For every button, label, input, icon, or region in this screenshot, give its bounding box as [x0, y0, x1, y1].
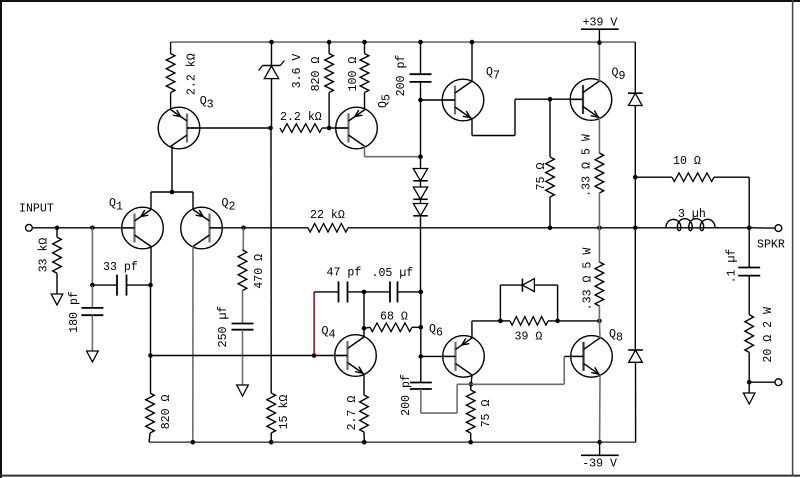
- svg-text:-39 V: -39 V: [582, 458, 617, 471]
- svg-text:75 Ω: 75 Ω: [480, 400, 493, 428]
- svg-text:20 Ω 2 W: 20 Ω 2 W: [762, 307, 775, 363]
- svg-text:3.6 V: 3.6 V: [291, 54, 304, 89]
- svg-text:820 Ω: 820 Ω: [310, 57, 323, 92]
- svg-text:SPKR: SPKR: [757, 239, 785, 252]
- svg-text:10 Ω: 10 Ω: [673, 155, 701, 168]
- svg-text:33 kΩ: 33 kΩ: [38, 238, 51, 273]
- svg-text:2.2 kΩ: 2.2 kΩ: [280, 111, 322, 124]
- svg-text:2.2 kΩ: 2.2 kΩ: [186, 53, 199, 95]
- svg-text:+39 V: +39 V: [583, 17, 618, 30]
- svg-text:.33 Ω 5 W: .33 Ω 5 W: [582, 248, 595, 311]
- svg-text:75 Ω: 75 Ω: [535, 163, 548, 191]
- svg-text:200 pf: 200 pf: [395, 55, 408, 97]
- svg-text:200 pf: 200 pf: [400, 374, 413, 416]
- svg-text:250 µf: 250 µf: [217, 306, 230, 348]
- svg-text:180 pf: 180 pf: [68, 291, 81, 333]
- svg-text:47 pf: 47 pf: [327, 267, 362, 280]
- svg-text:22 kΩ: 22 kΩ: [310, 209, 345, 222]
- svg-text:33 pf: 33 pf: [103, 261, 138, 274]
- svg-text:INPUT: INPUT: [19, 203, 54, 216]
- svg-text:100 Ω: 100 Ω: [347, 57, 360, 92]
- svg-text:68 Ω: 68 Ω: [380, 311, 408, 324]
- svg-text:15 kΩ: 15 kΩ: [278, 395, 291, 430]
- svg-text:820 Ω: 820 Ω: [160, 394, 173, 429]
- svg-text:.05 µf: .05 µf: [372, 267, 414, 280]
- svg-text:2.7 Ω: 2.7 Ω: [346, 396, 359, 431]
- svg-text:.1 µf: .1 µf: [726, 249, 739, 284]
- svg-text:3 µh: 3 µh: [678, 208, 706, 221]
- svg-text:.33 Ω 5 W: .33 Ω 5 W: [581, 134, 594, 197]
- svg-text:39 Ω: 39 Ω: [515, 331, 543, 344]
- svg-text:470 Ω: 470 Ω: [253, 254, 266, 289]
